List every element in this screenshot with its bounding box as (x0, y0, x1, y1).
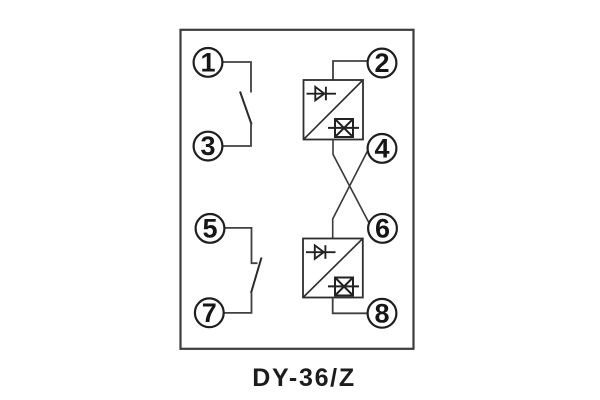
svg-text:7: 7 (202, 298, 217, 328)
module U1 diagonal (304, 80, 364, 140)
svg-text:2: 2 (374, 48, 389, 78)
wire: U2 bottom to terminal 8 (333, 298, 382, 314)
svg-text:1: 1 (200, 48, 215, 78)
wire: U1 bottom to terminal 6 (crossing) (333, 140, 372, 228)
contact blade K2 (251, 258, 262, 294)
diode D2 (306, 245, 336, 259)
wire: terminal 5 to fixed contact (210, 228, 258, 263)
terminal 3 (194, 131, 223, 161)
terminal 4 (368, 133, 397, 163)
terminal 6 (368, 213, 397, 243)
module U2 diagonal (303, 239, 363, 298)
wire: blade to terminal 7 (209, 293, 251, 313)
svg-text:DY-36/Z: DY-36/Z (252, 364, 356, 392)
wire: blade to terminal 3 (208, 124, 251, 146)
diode D1 (307, 87, 337, 101)
terminal 1 (194, 48, 223, 78)
wire: module U1 top to terminal 2 (333, 61, 382, 80)
svg-text:3: 3 (200, 131, 215, 161)
svg-text:5: 5 (202, 213, 217, 243)
module U2 box (303, 239, 363, 298)
module U1 box (304, 80, 364, 140)
svg-text:4: 4 (374, 133, 389, 163)
contact blade K1 (240, 92, 252, 125)
varistor RV1 (328, 119, 359, 137)
terminal 8 (368, 298, 397, 328)
terminal 7 (195, 298, 224, 328)
varistor RV2 (328, 278, 359, 296)
terminal 5 (196, 213, 225, 243)
wire: terminal 1 to fixed contact (208, 62, 251, 93)
svg-text:8: 8 (374, 298, 389, 328)
svg-text:6: 6 (375, 213, 390, 243)
wire: terminal 4 to module U2 top (crossing) (333, 148, 369, 238)
terminal 2 (368, 48, 397, 78)
